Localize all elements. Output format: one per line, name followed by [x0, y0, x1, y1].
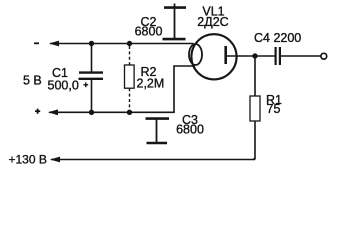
wire bottom rail — [49, 111, 175, 113]
wire filament riser — [174, 66, 195, 112]
wire bottom rail arrow — [48, 109, 58, 115]
node junction R2 top — [127, 41, 132, 46]
node junction C1 bottom — [89, 110, 94, 115]
tube VL1 anode — [224, 46, 227, 64]
svg-text:5 В: 5 В — [23, 74, 42, 88]
node junction R2 bottom — [127, 110, 132, 115]
node junction C1 top — [89, 41, 94, 46]
svg-text:2Д2С: 2Д2С — [197, 15, 228, 29]
svg-text:6800: 6800 — [176, 123, 204, 137]
wire anode lead — [227, 55, 256, 57]
svg-text:C4 2200: C4 2200 — [254, 31, 301, 45]
resistor R2 — [125, 46, 135, 110]
wire top rail arrow — [49, 41, 59, 47]
svg-text:500,0: 500,0 — [48, 79, 79, 93]
tube VL1 envelope — [191, 34, 236, 79]
svg-text:75: 75 — [267, 102, 281, 116]
node junction anode — [252, 53, 257, 58]
svg-text:6800: 6800 — [135, 25, 163, 39]
resistor R1 — [250, 56, 260, 160]
node plus terminal label — [35, 109, 40, 114]
capacitor C1 — [79, 44, 104, 113]
wire top rail — [50, 43, 194, 45]
wire 130V rail arrow — [50, 157, 60, 163]
svg-text:+130 В: +130 В — [9, 153, 47, 167]
node output terminal — [321, 53, 327, 59]
capacitor C3 — [146, 119, 170, 143]
tube VL1 filament — [189, 44, 202, 65]
wire 130V rail — [51, 158, 254, 160]
svg-text:2,2М: 2,2М — [137, 77, 165, 91]
capacitor C2 — [163, 4, 187, 40]
node minus terminal label — [34, 42, 39, 44]
capacitor C4 — [255, 47, 321, 65]
